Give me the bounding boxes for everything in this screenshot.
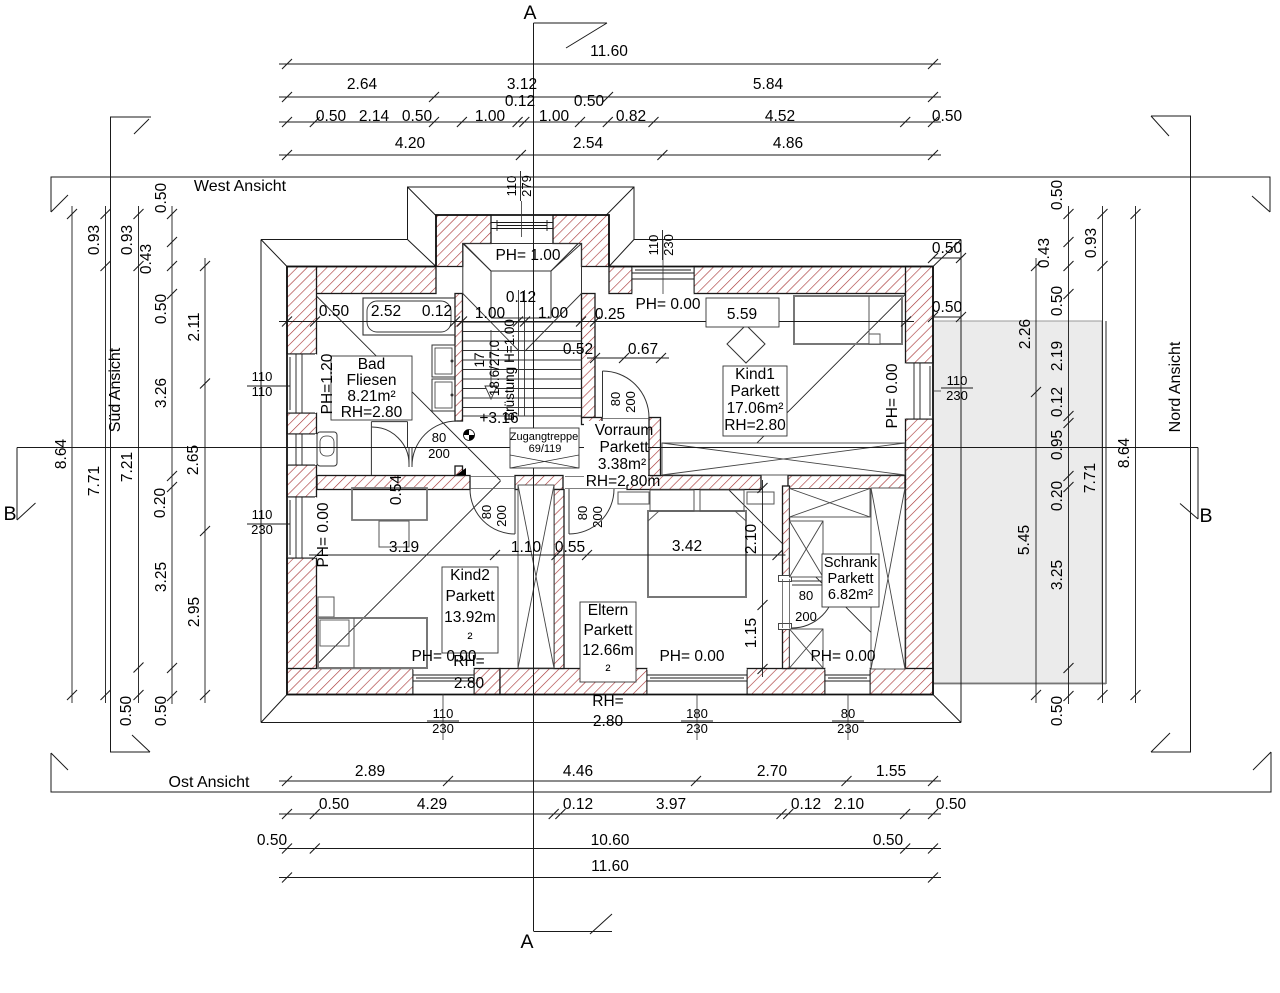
bathtub: [363, 298, 455, 335]
window Eltern bottom 180/230: [647, 669, 747, 695]
interior dim lower rooms: [309, 554, 786, 556]
section line A: [534, 23, 613, 934]
door Schrank: [792, 581, 835, 585]
dimension chain top row 1 (11.60): [279, 63, 941, 65]
outer wall boundary: [287, 215, 933, 695]
window Kind1 top 110/230: [632, 267, 694, 294]
chair Kind2: [379, 521, 409, 547]
svg-text:12.66m: 12.66m: [582, 642, 634, 659]
svg-text:6.82m²: 6.82m²: [828, 587, 873, 603]
svg-text:Kind1: Kind1: [735, 366, 775, 383]
svg-text:0.50: 0.50: [118, 696, 135, 727]
svg-text:Parkett: Parkett: [583, 622, 633, 639]
svg-text:8.64: 8.64: [53, 439, 70, 470]
svg-text:3.42: 3.42: [672, 538, 702, 555]
svg-text:0.50: 0.50: [402, 108, 433, 125]
chair Kind1 (rotated): [727, 325, 765, 363]
label Schrank: [822, 554, 879, 607]
outer wall left (between niche and Kind2 window): [287, 465, 317, 497]
svg-text:110: 110: [947, 373, 968, 388]
svg-text:Parkett: Parkett: [828, 571, 874, 587]
left chain fine: [171, 206, 173, 704]
svg-text:2.95: 2.95: [186, 597, 203, 627]
Ost Ansicht line: [51, 752, 1271, 792]
label Kind2: [442, 567, 498, 653]
center wall (Bad/Kind2): [317, 476, 470, 490]
svg-text:110: 110: [252, 369, 273, 384]
center wall (Kind1/Schrank): [788, 476, 905, 490]
svg-text:2.14: 2.14: [359, 108, 390, 125]
svg-text:2.80: 2.80: [454, 675, 485, 692]
svg-text:2.80: 2.80: [593, 713, 624, 730]
svg-text:2.19: 2.19: [1049, 341, 1066, 371]
svg-text:A: A: [520, 931, 533, 953]
outer wall top (Kind1): [694, 267, 933, 294]
outer wall top-left (Bad): [287, 267, 436, 294]
svg-text:0.50: 0.50: [1049, 180, 1066, 211]
svg-text:0.12: 0.12: [791, 796, 821, 813]
svg-text:5.45: 5.45: [1016, 525, 1033, 555]
section line B: [17, 448, 1198, 521]
outer wall bottom (pier Eltern/Schrank): [747, 669, 825, 695]
svg-text:Ost Ansicht: Ost Ansicht: [169, 774, 250, 791]
svg-text:80: 80: [799, 588, 813, 603]
nightstand Eltern right: [747, 492, 774, 504]
label Eltern: [580, 602, 636, 682]
svg-text:1.00: 1.00: [539, 108, 570, 125]
door Kind2: [470, 489, 515, 534]
svg-text:0.50: 0.50: [153, 183, 170, 214]
svg-text:4.29: 4.29: [417, 796, 447, 813]
dimension chain bottom row 2: [279, 813, 941, 815]
svg-text:17.06m²: 17.06m²: [727, 400, 784, 417]
corner dims 0.50: [933, 257, 961, 259]
svg-text:200: 200: [590, 506, 605, 528]
svg-text:PH= 0.00: PH= 0.00: [884, 363, 901, 428]
stair flight: [463, 290, 582, 416]
svg-text:0.50: 0.50: [319, 303, 350, 320]
svg-text:A: A: [523, 2, 536, 24]
wall Bad/stair 0.12: [455, 294, 463, 422]
wall Eltern/Schrank lower: [783, 628, 790, 669]
svg-text:2.70: 2.70: [757, 763, 788, 780]
bed Kind1: [794, 296, 902, 344]
svg-text:RH=: RH=: [592, 693, 623, 710]
svg-text:200: 200: [795, 609, 817, 624]
svg-text:+3.16: +3.16: [479, 410, 518, 427]
right chain 0.93/7.71: [1102, 206, 1104, 703]
svg-text:RH=2.80: RH=2.80: [341, 404, 403, 421]
wall stair/Kind1 0.25: [582, 294, 596, 418]
interior dim vertical 2.10/1.15: [762, 480, 764, 677]
outer wall top (right of stair bump): [609, 267, 632, 294]
svg-text:200: 200: [428, 446, 450, 461]
svg-text:0.50: 0.50: [932, 240, 963, 257]
svg-text:3.25: 3.25: [1049, 560, 1066, 590]
dimension chain top row 4: [279, 121, 941, 123]
svg-text:0.93: 0.93: [1083, 228, 1100, 258]
svg-text:Parkett: Parkett: [730, 383, 780, 400]
svg-text:0.25: 0.25: [595, 306, 625, 323]
wardrobe Kind2/Eltern hall: [518, 485, 554, 668]
right chain fine: [1068, 206, 1070, 704]
svg-text:4.86: 4.86: [773, 135, 803, 152]
svg-text:0.50: 0.50: [319, 796, 350, 813]
svg-text:3.12: 3.12: [507, 76, 537, 93]
outer wall bottom (Eltern left): [500, 669, 647, 695]
svg-text:0.50: 0.50: [932, 108, 963, 125]
wardrobe Schrank right: [871, 488, 905, 669]
center wall (Vorraum/Eltern): [627, 476, 761, 490]
svg-text:5.59: 5.59: [727, 306, 757, 323]
dimension chain top row 5: [279, 154, 941, 156]
svg-text:1.00: 1.00: [475, 305, 506, 322]
svg-text:4.52: 4.52: [765, 108, 795, 125]
svg-text:0.50: 0.50: [936, 796, 967, 813]
svg-text:Bad: Bad: [358, 356, 386, 373]
svg-text:0.43: 0.43: [1036, 238, 1053, 268]
left chain 0.93/7.71: [105, 206, 107, 703]
svg-text:13.92m: 13.92m: [444, 609, 496, 626]
svg-text:3.26: 3.26: [153, 378, 170, 408]
wardrobe Schrank bottom: [790, 629, 824, 668]
svg-text:2.11: 2.11: [186, 312, 203, 341]
stairwell skylight: [463, 244, 582, 319]
svg-text:80: 80: [608, 392, 623, 406]
svg-text:3.38m²: 3.38m²: [598, 456, 646, 473]
interior dim Vorraum: [587, 357, 669, 359]
svg-text:Nord Ansicht: Nord Ansicht: [1167, 341, 1184, 432]
svg-text:B: B: [3, 503, 16, 525]
svg-text:17: 17: [472, 352, 487, 367]
stair bump wall right: [553, 215, 609, 267]
svg-text:18.6/27.0: 18.6/27.0: [487, 340, 502, 396]
dimension chain bottom row 3: [279, 848, 941, 850]
svg-text:69/119: 69/119: [529, 443, 562, 455]
5.59 label box: [706, 298, 779, 327]
door threshold mark: [456, 468, 466, 475]
svg-text:0.50: 0.50: [1049, 696, 1066, 727]
svg-text:Fliesen: Fliesen: [347, 372, 397, 389]
wall Vorraum/Kind1: [649, 418, 661, 476]
svg-text:B: B: [1199, 505, 1212, 527]
svg-text:0.52: 0.52: [563, 341, 593, 358]
svg-text:0.50: 0.50: [1049, 286, 1066, 317]
outer wall right (Kind1 upper): [906, 267, 934, 364]
window Schrank bottom 80/230: [825, 669, 870, 695]
label Zugangtreppe: [510, 428, 579, 468]
svg-text:0.50: 0.50: [873, 832, 904, 849]
left chain 0.93/7.21/0.50: [138, 206, 140, 703]
bed Kind2: [318, 618, 427, 668]
wall Eltern/Schrank upper: [783, 486, 790, 579]
outer wall right (lower): [906, 419, 934, 695]
right chain 2.26/5.45: [1035, 258, 1037, 703]
svg-text:0.43: 0.43: [138, 244, 155, 274]
svg-text:0.12: 0.12: [422, 303, 452, 320]
outer wall bottom (Kind2 left): [287, 669, 413, 695]
outer wall bottom (Schrank right): [870, 669, 933, 695]
svg-text:RH=2.80: RH=2.80: [724, 417, 786, 434]
toilet: [317, 432, 337, 466]
svg-text:Schrank: Schrank: [824, 555, 878, 571]
svg-text:Süd Ansicht: Süd Ansicht: [107, 347, 124, 432]
svg-text:0.50: 0.50: [153, 294, 170, 325]
window Kind2 bottom 110/230: [413, 669, 474, 695]
svg-text:0.93: 0.93: [119, 225, 136, 255]
svg-text:2.10: 2.10: [743, 524, 760, 555]
svg-text:Parkett: Parkett: [445, 588, 495, 605]
svg-text:RH=2.80m: RH=2.80m: [586, 473, 661, 490]
svg-text:7.71: 7.71: [86, 466, 103, 496]
svg-text:279: 279: [519, 175, 534, 197]
svg-text:0.12: 0.12: [1049, 387, 1066, 417]
stair arrow: [485, 386, 497, 399]
wall Kind2-wardrobe/Eltern: [554, 490, 564, 669]
svg-text:2.54: 2.54: [573, 135, 604, 152]
svg-text:²: ²: [467, 630, 472, 647]
svg-text:0.55: 0.55: [555, 539, 585, 556]
svg-text:200: 200: [494, 505, 509, 527]
door Vorraum: [603, 371, 650, 418]
wall Bad/stair below door: [455, 466, 463, 476]
left chain 8.64: [71, 206, 73, 703]
svg-text:0.20: 0.20: [152, 488, 169, 519]
window stair bump 110/279: [491, 216, 553, 244]
wardrobe Schrank left: [790, 521, 824, 577]
svg-text:200: 200: [623, 391, 638, 413]
label Kind1: [723, 366, 787, 436]
svg-text:2.52: 2.52: [371, 303, 401, 320]
svg-text:Kind2: Kind2: [450, 567, 490, 584]
Nord Ansicht line: [1151, 116, 1191, 752]
label Bad: [331, 356, 412, 420]
svg-text:0.12: 0.12: [505, 93, 535, 110]
svg-text:0.54: 0.54: [388, 475, 405, 506]
svg-text:7.71: 7.71: [1082, 463, 1099, 493]
nightstand Eltern left: [618, 492, 649, 504]
svg-text:110: 110: [504, 176, 519, 197]
washbasin 1: [432, 345, 455, 377]
svg-text:8.64: 8.64: [1116, 438, 1133, 469]
svg-text:Zugangtreppe: Zugangtreppe: [510, 431, 579, 443]
window Kind2 left 110/230: [287, 497, 317, 558]
door jambs Schrank: [779, 576, 792, 582]
svg-text:2.64: 2.64: [347, 76, 378, 93]
window Bad left 110/110: [287, 354, 317, 413]
svg-text:8.21m²: 8.21m²: [347, 388, 395, 405]
door opening face lines: [470, 419, 790, 629]
svg-text:PH= 0.00: PH= 0.00: [315, 502, 332, 567]
bed Eltern: [648, 511, 746, 597]
svg-text:1.00: 1.00: [538, 305, 569, 322]
svg-text:0.67: 0.67: [628, 341, 658, 358]
svg-text:0.50: 0.50: [316, 108, 347, 125]
center wall (wardrobe top): [515, 476, 563, 490]
svg-text:230: 230: [946, 388, 968, 403]
svg-text:1.00: 1.00: [475, 108, 506, 125]
svg-text:2.65: 2.65: [185, 445, 202, 475]
right chain 8.64: [1135, 206, 1137, 703]
window leader lines: [933, 390, 941, 392]
stair reference circle: [464, 430, 475, 441]
svg-text:PH= 0.00: PH= 0.00: [659, 648, 724, 665]
dimension chain bottom row 1: [279, 780, 941, 782]
svg-text:0.20: 0.20: [1049, 481, 1066, 512]
svg-text:0.50: 0.50: [574, 93, 605, 110]
svg-text:1.10: 1.10: [511, 539, 542, 556]
svg-text:4.46: 4.46: [563, 763, 593, 780]
svg-text:11.60: 11.60: [590, 43, 628, 60]
svg-text:PH=1.20: PH=1.20: [319, 353, 336, 414]
svg-text:Parkett: Parkett: [599, 439, 649, 456]
outer wall bottom (Kind2/pier): [474, 669, 500, 695]
svg-text:0.95: 0.95: [1049, 430, 1066, 460]
svg-text:0.50: 0.50: [932, 299, 963, 316]
svg-text:2.89: 2.89: [355, 763, 385, 780]
roof hip lines: [287, 267, 933, 695]
dimension chain top row 2: [279, 96, 941, 98]
West Ansicht line: [51, 177, 1270, 212]
washbasin 2: [432, 379, 455, 411]
wardrobe Schrank top: [790, 489, 871, 518]
nightstand Kind2: [318, 597, 334, 617]
bidet: [336, 374, 355, 395]
svg-text:110: 110: [646, 235, 661, 256]
terrace slab: [933, 321, 1102, 683]
interior dim chain upper: [279, 321, 914, 323]
window Kind1 right 110/230: [906, 363, 934, 419]
svg-text:2.10: 2.10: [834, 796, 865, 813]
svg-text:PH= 0.00: PH= 0.00: [635, 296, 700, 313]
svg-text:0.12: 0.12: [506, 289, 536, 306]
outer wall left (Bad upper): [287, 267, 317, 355]
label Vorraum: [584, 421, 648, 485]
roof outline: [261, 187, 961, 723]
svg-text:PH= 0.00: PH= 0.00: [411, 648, 476, 665]
stair bump wall left: [436, 215, 491, 267]
svg-text:Eltern: Eltern: [588, 602, 629, 619]
svg-text:0.12: 0.12: [563, 796, 593, 813]
desk Kind2: [352, 488, 427, 520]
door Bad: [371, 422, 412, 475]
svg-text:²: ²: [605, 662, 610, 679]
dimension chain bottom row 4: [279, 877, 941, 879]
niche Bad left: [287, 434, 317, 465]
svg-text:0.93: 0.93: [86, 225, 103, 255]
left chain 2.11/2.65/2.95: [204, 258, 206, 703]
svg-text:7.21: 7.21: [119, 452, 136, 482]
svg-text:0.50: 0.50: [153, 696, 170, 727]
svg-text:West Ansicht: West Ansicht: [194, 178, 287, 195]
svg-text:10.60: 10.60: [591, 832, 630, 849]
wardrobe Kind1: [662, 443, 905, 475]
svg-text:1.55: 1.55: [876, 763, 906, 780]
svg-text:3.19: 3.19: [389, 539, 419, 556]
svg-text:1.15: 1.15: [743, 618, 760, 648]
Sued Ansicht line: [111, 117, 152, 752]
svg-text:80: 80: [479, 505, 494, 519]
svg-text:Vorraum: Vorraum: [595, 422, 654, 439]
svg-text:110: 110: [252, 507, 273, 522]
door Eltern: [569, 489, 614, 534]
svg-text:2.26: 2.26: [1017, 319, 1034, 349]
svg-text:PH= 0.00: PH= 0.00: [810, 648, 875, 665]
svg-text:0.50: 0.50: [257, 832, 288, 849]
outer wall left (between Bad window and niche): [287, 413, 317, 434]
svg-text:4.20: 4.20: [395, 135, 426, 152]
svg-text:11.60: 11.60: [591, 858, 629, 875]
svg-text:Brüstung H=1.00: Brüstung H=1.00: [502, 319, 517, 421]
svg-text:0.82: 0.82: [616, 108, 646, 125]
svg-text:PH= 1.00: PH= 1.00: [495, 247, 560, 264]
svg-text:3.97: 3.97: [656, 796, 686, 813]
svg-text:5.84: 5.84: [753, 76, 784, 93]
outer wall left (Kind2 lower): [287, 558, 317, 695]
svg-text:80: 80: [432, 430, 446, 445]
svg-text:80: 80: [575, 506, 590, 520]
svg-text:3.25: 3.25: [153, 562, 170, 592]
wall stub at Vorraum corner: [582, 418, 603, 425]
